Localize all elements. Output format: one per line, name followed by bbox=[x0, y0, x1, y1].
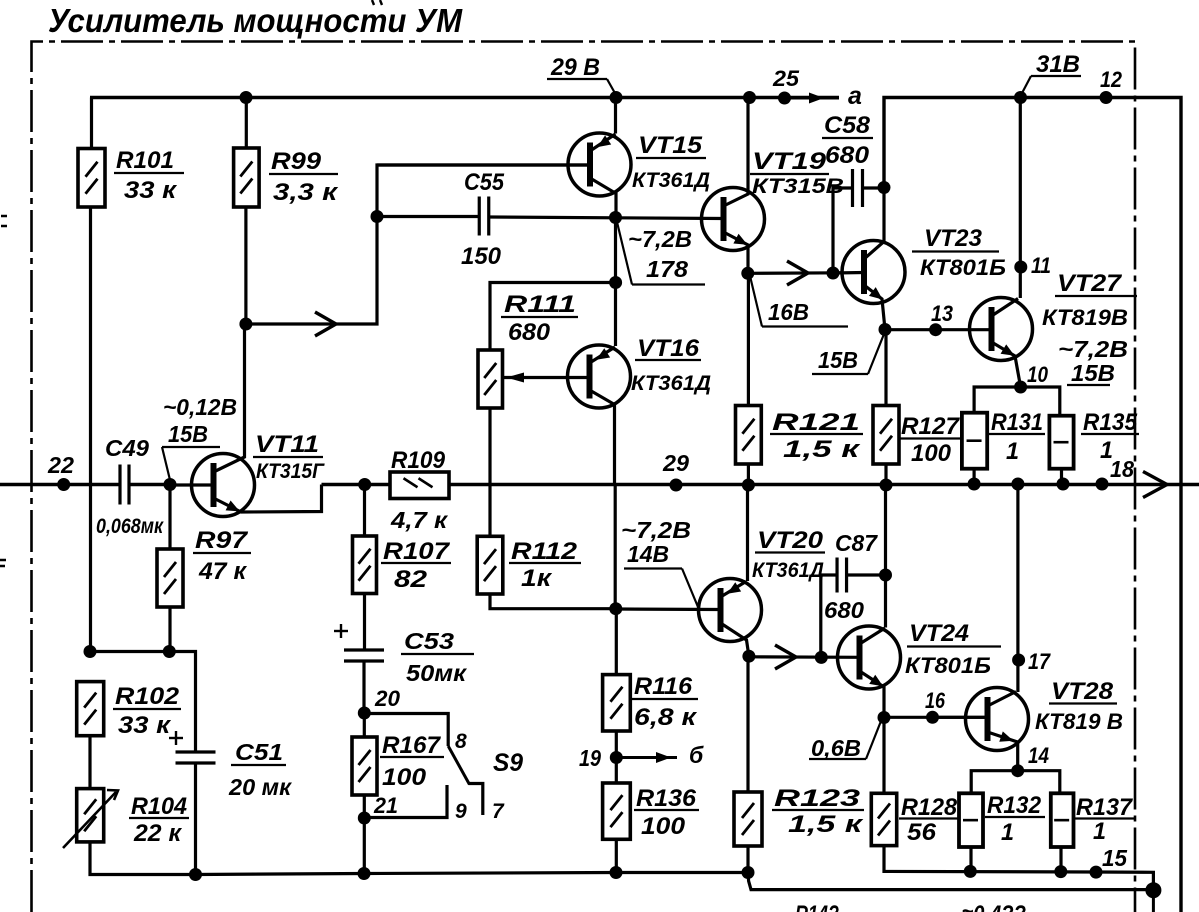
svg-text:11: 11 bbox=[1031, 253, 1051, 278]
transistor VT27 bbox=[970, 298, 1033, 361]
wire C51 top bbox=[169, 652, 195, 753]
svg-text:12: 12 bbox=[1100, 67, 1123, 92]
svg-text:33 к: 33 к bbox=[124, 177, 178, 204]
VT15 collector lead bbox=[590, 178, 616, 218]
svg-text:14В: 14В bbox=[627, 541, 669, 567]
svg-text:R137: R137 bbox=[1076, 794, 1134, 821]
svg-text:150: 150 bbox=[461, 243, 502, 270]
svg-text:R14?: R14? bbox=[795, 901, 839, 912]
wire R131 bottom bbox=[972, 469, 975, 485]
arrow node 18 output bbox=[1143, 472, 1167, 498]
transistor VT16 bbox=[568, 345, 631, 408]
svg-text:С51: С51 bbox=[235, 739, 283, 765]
wire VT24 emitter to VT28 base bbox=[884, 716, 988, 719]
svg-text:16: 16 bbox=[925, 688, 946, 713]
svg-text:КТ361Д: КТ361Д bbox=[752, 559, 824, 582]
label R107 bbox=[381, 538, 451, 593]
junction top rail / VT15 bbox=[610, 91, 623, 104]
wire VT28 collector chain bbox=[1016, 485, 1019, 693]
svg-text:R102: R102 bbox=[115, 683, 180, 710]
wire R111 top bbox=[490, 283, 616, 351]
resistor R131 bbox=[962, 413, 987, 469]
resistor R136 bbox=[603, 783, 631, 839]
resistor R107 bbox=[353, 536, 377, 594]
svg-text:КТ819 В: КТ819 В bbox=[1035, 709, 1123, 734]
svg-text:1: 1 bbox=[1093, 818, 1106, 845]
resistor R132 bbox=[959, 793, 983, 847]
wire VT15 emitter to rail bbox=[614, 98, 617, 134]
wire VT19 to VT23 base bbox=[748, 271, 841, 275]
svg-text:R97: R97 bbox=[195, 527, 249, 554]
label 31В bbox=[1021, 51, 1081, 95]
label 15В bbox=[812, 334, 884, 374]
junction C58 right bbox=[878, 181, 891, 194]
junction VT20 base tap bbox=[609, 602, 622, 615]
junction C58 tap left bbox=[827, 267, 840, 280]
wire R97 top bbox=[168, 485, 171, 550]
junction x1018 rail bbox=[1011, 478, 1024, 491]
junction C55 tap bbox=[371, 210, 384, 223]
VT16 emitter lead bbox=[590, 347, 616, 363]
junction VT19 emitter bbox=[741, 267, 754, 280]
junction R121 rail bbox=[742, 479, 755, 492]
label 150 bbox=[461, 243, 502, 270]
bottom cut text R140 bbox=[795, 901, 839, 912]
node 14 bbox=[1011, 743, 1049, 777]
svg-text:18: 18 bbox=[1110, 456, 1134, 482]
junction VT20 collector bbox=[742, 650, 755, 663]
svg-text:1: 1 bbox=[1100, 437, 1113, 464]
junction R111 / x615 bbox=[609, 276, 622, 289]
svg-text:7: 7 bbox=[492, 800, 505, 823]
node 15 bbox=[1090, 845, 1129, 879]
wire R107 top bbox=[363, 485, 366, 537]
svg-text:15В: 15В bbox=[1071, 360, 1115, 386]
wire R112 bottom bbox=[490, 594, 616, 609]
junction input node bbox=[164, 478, 177, 491]
svg-text:3,3 к: 3,3 к bbox=[273, 179, 339, 206]
svg-text:КТ361Д: КТ361Д bbox=[631, 372, 711, 395]
wire bottom right drop bbox=[1152, 890, 1155, 912]
svg-text:VT28: VT28 bbox=[1051, 678, 1114, 705]
svg-text:а: а bbox=[848, 82, 862, 110]
VT11 emitter bbox=[214, 485, 322, 513]
label C53 bbox=[401, 628, 474, 686]
VT28 collector lead bbox=[988, 692, 1017, 707]
svg-text:~7,2В: ~7,2В bbox=[1058, 336, 1128, 362]
wire C53 to node 20 bbox=[362, 661, 365, 713]
wire feedback node bbox=[90, 650, 169, 653]
VT27 emitter lead bbox=[992, 342, 1021, 387]
capacitor C53 bbox=[334, 624, 384, 661]
label 9 bbox=[455, 800, 467, 823]
node 11 bbox=[1014, 253, 1051, 278]
wire R136 top bbox=[615, 758, 618, 784]
svg-text:100: 100 bbox=[641, 813, 686, 840]
transistor VT23 bbox=[842, 241, 905, 304]
wire R123 top bbox=[746, 657, 749, 792]
wire x615 segment bbox=[614, 218, 617, 347]
label R167 bbox=[380, 732, 444, 791]
wire top rail 31V bbox=[884, 98, 1181, 912]
wire R99 top bbox=[245, 98, 248, 149]
junction VT24 emitter bbox=[878, 711, 891, 724]
label R102 bbox=[113, 683, 181, 739]
svg-text:R99: R99 bbox=[271, 148, 322, 175]
label 8 bbox=[455, 730, 467, 753]
wire C55 right to VT19 base bbox=[490, 217, 724, 219]
left-edge text fragment 1 bbox=[1, 216, 7, 226]
left-edge text fragment 2 bbox=[0, 560, 6, 566]
label R99 bbox=[269, 148, 339, 206]
svg-text:R131: R131 bbox=[991, 409, 1043, 436]
capacitor C49 bbox=[120, 465, 129, 505]
wire bottom rail bbox=[196, 873, 1154, 890]
wire R127 rail to VT24 collector bbox=[884, 485, 887, 628]
node 13 bbox=[929, 301, 953, 336]
svg-text:S9: S9 bbox=[493, 749, 523, 777]
node 17 bbox=[1012, 649, 1051, 674]
wire node10 to R135 bbox=[1021, 387, 1060, 416]
label R136 bbox=[634, 785, 699, 840]
junction VT19 base tap bbox=[609, 211, 622, 224]
VT16 collector lead bbox=[590, 390, 615, 484]
capacitor C58 bbox=[853, 169, 863, 207]
label R101 bbox=[114, 147, 184, 204]
junction R132 bus bbox=[964, 865, 977, 878]
svg-text:КТ315В: КТ315В bbox=[752, 175, 844, 198]
wire R128 bottom + lower bus bbox=[884, 846, 1153, 890]
title text bbox=[48, 2, 463, 39]
svg-text:б: б bbox=[689, 742, 704, 768]
junction VT19 collector rail bbox=[743, 91, 756, 104]
svg-text:VT15: VT15 bbox=[638, 132, 703, 159]
junction bottom rail R167 bbox=[358, 867, 371, 880]
resistor R116 bbox=[603, 675, 631, 731]
bottom cut text value bbox=[962, 901, 1026, 912]
VT20 emitter lead bbox=[721, 582, 747, 598]
svg-text:31В: 31В bbox=[1036, 51, 1080, 78]
svg-text:R109: R109 bbox=[391, 447, 446, 474]
wire R101 top bbox=[90, 98, 93, 149]
VT19 emitter lead bbox=[724, 232, 749, 273]
top-edge text fragment bbox=[372, 0, 382, 5]
svg-text:С49: С49 bbox=[105, 435, 149, 461]
VT20 collector lead bbox=[721, 623, 749, 656]
label R135 bbox=[1081, 409, 1139, 464]
node 29 bbox=[662, 450, 689, 492]
wire R99 bottom / VT11 collector bbox=[244, 207, 247, 324]
transistor VT15 bbox=[568, 133, 631, 196]
node 16 bbox=[925, 688, 946, 724]
resistor R102 bbox=[77, 682, 104, 736]
transistor VT24 bbox=[838, 626, 901, 689]
wire R132 bottom bbox=[969, 847, 972, 871]
svg-text:С53: С53 bbox=[404, 628, 454, 654]
label R123 bbox=[772, 785, 865, 838]
label ~7,2В 15В VT27 bbox=[1058, 336, 1128, 386]
label 680 C87 bbox=[824, 597, 864, 623]
svg-text:КТ819В: КТ819В bbox=[1042, 305, 1128, 330]
wire VT16 collector down bbox=[614, 484, 617, 609]
VT28 emitter lead bbox=[988, 731, 1018, 770]
svg-text:178: 178 bbox=[646, 256, 688, 282]
label S9 bbox=[493, 749, 523, 777]
switch S9 contact 9 bbox=[364, 785, 447, 818]
svg-text:25: 25 bbox=[772, 66, 800, 91]
svg-text:100: 100 bbox=[382, 764, 427, 791]
junction R99 / VT11 / loop bbox=[239, 318, 252, 331]
svg-text:13: 13 bbox=[931, 301, 953, 326]
wire R121 bottom bbox=[747, 464, 750, 485]
wire VT11 base bbox=[170, 483, 214, 486]
wire R121 top bbox=[747, 273, 750, 405]
wire R167 bottom bbox=[363, 795, 366, 874]
label C87 bbox=[835, 530, 878, 556]
junction bottom right big bbox=[1145, 882, 1161, 898]
wire VT23 emitter to VT27 base bbox=[885, 328, 992, 331]
wire C51 bottom bbox=[194, 763, 197, 875]
svg-text:680: 680 bbox=[824, 597, 864, 623]
resistor R137 bbox=[1051, 793, 1074, 847]
label R127 bbox=[899, 413, 961, 467]
svg-text:≈0,4??: ≈0,4?? bbox=[962, 901, 1026, 912]
label C49 bbox=[105, 435, 149, 461]
node 22 bbox=[47, 452, 74, 491]
svg-text:VT23: VT23 bbox=[924, 225, 983, 252]
svg-text:R116: R116 bbox=[634, 673, 693, 700]
transistor VT11 bbox=[192, 454, 255, 517]
svg-text:20 мк: 20 мк bbox=[228, 774, 292, 800]
junction top rail / R99 bbox=[240, 91, 253, 104]
label VT27 bbox=[1042, 270, 1137, 330]
svg-text:22 к: 22 к bbox=[133, 820, 183, 847]
junction R97 bottom bbox=[163, 645, 176, 658]
wire R101 bottom to node bbox=[89, 207, 92, 652]
label R137 bbox=[1074, 794, 1134, 845]
svg-text:R104: R104 bbox=[131, 793, 187, 820]
resistor R135 bbox=[1049, 416, 1073, 469]
arrow net a bbox=[784, 82, 862, 110]
svg-text:15В: 15В bbox=[168, 421, 208, 447]
resistor R111 bbox=[478, 350, 503, 408]
wire R167 top bbox=[363, 713, 366, 737]
svg-text:82: 82 bbox=[394, 566, 428, 593]
label VT24 bbox=[905, 620, 1001, 678]
label R112 bbox=[509, 538, 581, 592]
wire node14 to R137 bbox=[1018, 771, 1060, 794]
svg-text:С58: С58 bbox=[824, 112, 871, 139]
wire node16 to VT28 base bbox=[933, 716, 987, 719]
resistor R109 bbox=[390, 472, 449, 499]
junction R131 rail bbox=[968, 478, 981, 491]
svg-text:100: 100 bbox=[911, 440, 952, 467]
svg-text:680: 680 bbox=[825, 142, 870, 169]
svg-text:~0,12В: ~0,12В bbox=[163, 394, 237, 420]
resistor R97 bbox=[157, 549, 183, 607]
svg-text:17: 17 bbox=[1028, 649, 1052, 674]
svg-text:VT20: VT20 bbox=[757, 527, 824, 554]
svg-text:R101: R101 bbox=[116, 147, 174, 174]
label 7 bbox=[492, 800, 505, 823]
svg-text:R132: R132 bbox=[987, 792, 1042, 819]
wire C87 right bbox=[847, 573, 886, 576]
svg-text:R112: R112 bbox=[511, 538, 578, 565]
junction R109 left bbox=[358, 478, 371, 491]
label 0,068мк bbox=[96, 515, 164, 538]
VT27 collector lead bbox=[992, 299, 1019, 317]
wire middle rail left bbox=[0, 483, 120, 486]
label VT15 bbox=[632, 132, 710, 192]
switch S9 blade bbox=[448, 746, 469, 785]
svg-text:1: 1 bbox=[1006, 438, 1019, 465]
svg-text:0,068мк: 0,068мк bbox=[96, 515, 164, 538]
resistor R128 bbox=[871, 793, 896, 845]
wire middle rail main bbox=[322, 483, 1199, 486]
junction C51 bottom rail bbox=[189, 868, 202, 881]
wire middle rail seg2 bbox=[129, 483, 170, 486]
svg-text:6,8 к: 6,8 к bbox=[634, 704, 698, 731]
svg-text:680: 680 bbox=[508, 319, 551, 346]
svg-text:VT16: VT16 bbox=[637, 335, 700, 362]
resistor R104 variable bbox=[63, 789, 118, 848]
junction bottom rail R123 bbox=[742, 866, 755, 879]
label 16В bbox=[750, 276, 848, 327]
label 0,6В bbox=[809, 721, 881, 761]
wire rail to VT20 emitter bbox=[746, 485, 749, 581]
wire R104 bottom bbox=[90, 842, 196, 875]
svg-text:1,5 к: 1,5 к bbox=[783, 436, 862, 463]
transistor VT20 bbox=[699, 579, 762, 642]
wire R128 top bbox=[882, 718, 885, 794]
junction R137 bus bbox=[1054, 865, 1067, 878]
label C51 bbox=[228, 739, 292, 800]
svg-text:1: 1 bbox=[1001, 819, 1014, 846]
svg-text:R123: R123 bbox=[774, 785, 861, 812]
junction C87 tap left bbox=[815, 651, 828, 664]
resistor R121 bbox=[736, 406, 762, 465]
arrow on VT19-VT23 wire bbox=[787, 261, 808, 285]
svg-text:КТ361Д: КТ361Д bbox=[632, 169, 710, 192]
label R128 bbox=[899, 794, 959, 846]
node 21 bbox=[358, 793, 398, 825]
label VT16 bbox=[631, 335, 711, 395]
wire R116 bottom bbox=[615, 731, 618, 758]
node 18 bbox=[1096, 456, 1135, 491]
svg-text:21: 21 bbox=[373, 793, 398, 818]
wire C55 left bbox=[377, 215, 479, 218]
transistor VT19 bbox=[702, 188, 765, 251]
VT24 collector lead bbox=[860, 628, 886, 644]
label ~7,2В 178 bbox=[617, 222, 705, 285]
VT19 collector lead bbox=[724, 98, 749, 207]
svg-text:1,5 к: 1,5 к bbox=[788, 811, 865, 838]
label R132 bbox=[985, 792, 1045, 846]
arrow on loop wire bbox=[315, 312, 336, 336]
label VT23 bbox=[912, 225, 1006, 280]
svg-text:R111: R111 bbox=[504, 291, 576, 318]
wire loop to VT15 base bbox=[246, 165, 591, 324]
VT15 emitter lead bbox=[590, 134, 616, 151]
node 20 bbox=[358, 686, 401, 720]
label ~0,12В 15В bbox=[162, 394, 237, 480]
svg-text:~7,2В: ~7,2В bbox=[621, 517, 691, 543]
label C58 bbox=[822, 112, 873, 169]
svg-text:8: 8 bbox=[455, 730, 467, 753]
label R121 bbox=[770, 409, 863, 463]
wire VT27 collector chain bbox=[1019, 98, 1022, 299]
resistor R101 bbox=[78, 149, 105, 208]
svg-text:Усилитель мощности УМ: Усилитель мощности УМ bbox=[48, 2, 463, 39]
junction C87 right bbox=[879, 569, 892, 582]
VT23 collector lead bbox=[864, 188, 884, 259]
label ~7,2В 14В bbox=[621, 517, 698, 607]
wire VT23 base bbox=[833, 271, 864, 275]
wire VT16 base tap bbox=[503, 376, 591, 379]
svg-text:1к: 1к bbox=[521, 565, 553, 592]
svg-text:VT11: VT11 bbox=[255, 431, 319, 458]
wire C58 left bbox=[833, 188, 853, 273]
switch S9 contact 8 bbox=[364, 714, 448, 747]
wire VT15 base bbox=[377, 163, 591, 166]
svg-text:14: 14 bbox=[1028, 743, 1049, 768]
wire R123 bottom bbox=[746, 846, 749, 873]
VT11 collector bbox=[214, 324, 245, 472]
svg-text:9: 9 bbox=[455, 800, 467, 823]
label VT20 bbox=[752, 527, 825, 582]
svg-text:56: 56 bbox=[907, 819, 937, 846]
label C55 bbox=[464, 169, 505, 196]
label VT11 bbox=[253, 431, 325, 483]
svg-text:R107: R107 bbox=[383, 538, 451, 565]
svg-text:VT24: VT24 bbox=[909, 620, 969, 647]
wire top rail 29V bbox=[90, 96, 839, 99]
wire R97 bottom bbox=[168, 607, 171, 652]
svg-text:33 к: 33 к bbox=[118, 712, 172, 739]
wire R137 bottom bbox=[1059, 847, 1062, 872]
junction bottom rail R136 bbox=[610, 866, 623, 879]
svg-text:R127: R127 bbox=[901, 413, 961, 440]
svg-text:КТ801Б: КТ801Б bbox=[920, 255, 1006, 280]
switch S9 contact 7 bbox=[469, 784, 483, 816]
svg-text:15В: 15В bbox=[818, 347, 858, 373]
wire R127 top bbox=[884, 330, 887, 406]
capacitor C51 bbox=[169, 731, 216, 763]
transistor VT28 bbox=[966, 688, 1029, 751]
junction R102 top bbox=[84, 645, 97, 658]
svg-text:КТ801Б: КТ801Б bbox=[905, 653, 991, 678]
svg-text:10: 10 bbox=[1027, 362, 1049, 387]
VT24 emitter lead bbox=[860, 671, 885, 718]
wire R135 bottom bbox=[1060, 469, 1063, 485]
svg-text:0,6В: 0,6В bbox=[811, 735, 861, 761]
capacitor C87 bbox=[837, 558, 847, 593]
svg-text:29: 29 bbox=[662, 450, 689, 476]
svg-text:16В: 16В bbox=[768, 299, 809, 325]
node 19 bbox=[579, 745, 623, 771]
svg-text:VT27: VT27 bbox=[1057, 270, 1123, 297]
svg-text:R135: R135 bbox=[1083, 409, 1138, 436]
node 25 bbox=[772, 66, 800, 105]
node 12 bbox=[1100, 67, 1123, 104]
svg-text:R128: R128 bbox=[901, 794, 958, 821]
label R104 bbox=[129, 793, 189, 847]
svg-text:R136: R136 bbox=[636, 785, 697, 812]
label 29 В bbox=[547, 54, 616, 95]
label VT19 bbox=[750, 148, 844, 198]
svg-text:R167: R167 bbox=[382, 732, 442, 759]
wire R136 bottom bbox=[615, 839, 618, 872]
